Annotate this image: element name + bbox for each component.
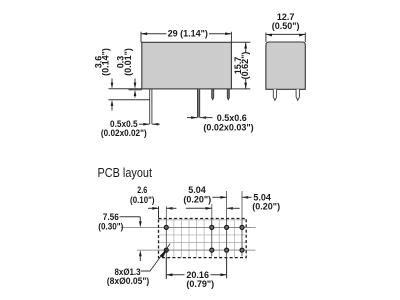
svg-text:(0.02x0.03"): (0.02x0.03") (203, 123, 253, 133)
end view right pin (296, 89, 299, 100)
dim 0.5x0.6 right tail (200, 117, 213, 119)
dim 5.04 mid line (186, 207, 212, 209)
svg-text:(0.14"): (0.14") (101, 48, 111, 76)
8 mounting holes (164, 225, 244, 252)
svg-text:2.6: 2.6 (137, 185, 147, 195)
svg-text:(0.02x0.02"): (0.02x0.02") (101, 128, 147, 138)
dim 5.04 mid right arrowhead (227, 207, 233, 210)
svg-text:(0.20"): (0.20") (252, 202, 280, 212)
dim 3.6 upper arrowhead (111, 83, 114, 89)
dim 29 line right segment (209, 33, 231, 35)
dim 29 right arrowhead (225, 32, 231, 35)
pin 3 (short) (212, 89, 214, 100)
svg-text:29 (1.14"): 29 (1.14") (168, 29, 208, 39)
dim 15.7 line top segment (245, 42, 247, 52)
dim 0.3 lower tail (134, 96, 136, 98)
dim 7.56 upper arrowhead (139, 221, 142, 227)
dim 5.04 mid right tail (227, 207, 240, 209)
standoff line 0.3 below body (129, 89, 142, 91)
dim 5.04 right right-tail (242, 196, 252, 198)
dim 20.16 line right seg (211, 274, 227, 276)
svg-text:(0.79"): (0.79") (186, 279, 214, 289)
hole column 3 center line (226, 191, 228, 278)
dim 15.7 bottom arrowhead (244, 83, 247, 89)
dim 15.7 bottom extension line (231, 88, 250, 90)
relay side view body (142, 42, 232, 89)
dim 0.5x0.6 right arrowhead (200, 116, 206, 119)
hole leader arrowhead (160, 249, 167, 258)
dim 29 line left segment (141, 33, 167, 35)
hole column 2 center line (211, 204, 213, 256)
dim 12.7 right arrowhead (299, 34, 305, 37)
svg-text:(0.30"): (0.30") (98, 222, 123, 232)
dim 15.7 top extension line (231, 41, 250, 43)
svg-text:(0.20"): (0.20") (183, 194, 211, 204)
svg-text:(0.62"): (0.62") (240, 52, 250, 80)
dim 0.5x0.5 left arrowhead (143, 123, 149, 126)
pin 2 (long, width-dimensioned) (197, 89, 199, 118)
svg-text:7.56: 7.56 (103, 212, 119, 222)
dim 0.5x0.5 right tail (152, 123, 160, 125)
pin 4 (short) (227, 89, 229, 100)
dim 7.56 lower arrowhead (139, 250, 142, 256)
dim 5.04 mid left arrowhead (206, 207, 212, 210)
dim 12.7 line (266, 33, 305, 35)
dim 5.04 right arrowhead at C3 (220, 196, 226, 199)
PCB grid (159, 219, 247, 258)
dim 29 right extension line (230, 32, 232, 43)
svg-text:(0.10"): (0.10") (130, 195, 155, 205)
dim 3.6 upper leader (111, 79, 113, 85)
dim 3.6 lower arrowhead (111, 100, 114, 106)
dim 12.7 right extension line (304, 33, 306, 43)
dim 7.56 leader (120, 216, 141, 218)
dim 0.3 upper leader (134, 79, 136, 85)
dim 0.5x0.6 left arrowhead (191, 116, 197, 119)
PCB outline (dashed) (159, 219, 247, 258)
dim 15.7 line bottom segment (245, 79, 247, 89)
dim 20.16 line left seg (166, 274, 184, 276)
dim 3.6 lower leader (111, 105, 113, 111)
pin 1 (long, width-dimensioned) (150, 89, 152, 124)
dim 2.6 right arrow tail (166, 207, 176, 209)
dim 0.5x0.6 left tail (187, 117, 197, 119)
dim 20.16 right arrowhead (220, 273, 226, 276)
dim 0.3 lower arrowhead (134, 90, 137, 96)
dim 0.5x0.5 leader line (139, 123, 149, 125)
dim 2.6 left extension line (158, 206, 160, 218)
hole column 4 center line (241, 191, 243, 256)
dim 20.16 right extension (226, 258, 228, 279)
dim 20.16 left arrowhead (166, 273, 172, 276)
dim 7.56 line upper (139, 217, 141, 222)
dim 29 left extension line (140, 32, 142, 43)
dim 29 left arrowhead (141, 32, 147, 35)
relay end view body (266, 42, 305, 89)
hole column 1 center line (165, 206, 167, 279)
dim 0.3 upper arrowhead (134, 83, 137, 89)
dim 20.16 left extension (165, 258, 167, 279)
dim 15.7 top arrowhead (244, 42, 247, 48)
hole leader line (141, 244, 171, 271)
svg-text:(0.01"): (0.01") (123, 48, 133, 76)
svg-text:(8xØ0.05"): (8xØ0.05") (107, 276, 150, 286)
dim 12.7 left extension line (265, 33, 267, 43)
dim 0.5x0.5 right arrowhead (152, 123, 158, 126)
dim 5.04 right arrowhead at C4 (242, 196, 248, 199)
dim 2.6 line (148, 207, 159, 209)
dim 2.6 left arrowhead (152, 207, 158, 210)
body bottom extension line (109, 88, 142, 90)
dim 2.6 right arrowhead (166, 207, 172, 210)
hole row 1 center line (121, 226, 256, 228)
hole row 2 center line (137, 249, 256, 251)
end view left pin (273, 89, 276, 100)
dim 5.04 right left-tail (212, 196, 226, 198)
pin shoulder line (109, 99, 150, 101)
dim 12.7 left arrowhead (266, 34, 272, 37)
dim 7.56 line lower (139, 256, 141, 261)
svg-text:(0.50"): (0.50") (272, 21, 300, 31)
svg-text:PCB layout: PCB layout (98, 165, 153, 180)
